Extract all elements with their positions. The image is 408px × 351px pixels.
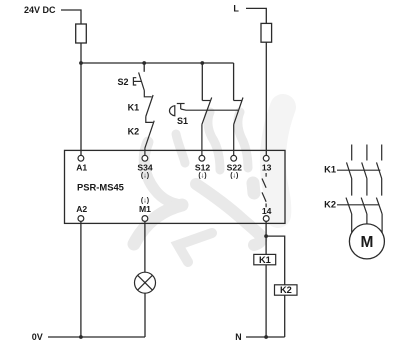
node A2/0V junction [79,335,83,339]
svg-text:14: 14 [262,206,272,216]
terminal A1 [78,155,84,161]
node bus/S12 junction [200,61,204,65]
wire L feed [246,8,266,23]
wire drop to S12 contact [201,63,203,101]
terminal S34 [142,155,148,161]
wire top bus [81,62,234,64]
svg-text:M1: M1 [139,204,151,214]
svg-text:(↓): (↓) [198,173,206,180]
svg-text:PSR-MS45: PSR-MS45 [77,181,124,192]
node K1/N junction [264,335,268,339]
lamp H1 [135,272,156,293]
svg-text:S22: S22 [227,162,243,172]
node branch split [264,234,268,238]
svg-text:K1: K1 [128,102,140,112]
svg-text:K2: K2 [280,285,292,295]
fuse F2 (L) [261,23,272,42]
terminal 14 [263,216,269,222]
wire lamp to 0V [144,293,146,337]
coil K1 [254,254,276,264]
svg-text:(↓): (↓) [141,173,149,180]
node bus/S2 junction [142,61,146,65]
svg-text:24V DC: 24V DC [24,5,56,15]
terminal M1 [142,216,148,222]
wire 14 to branch node [265,221,267,236]
contact K1 (NC aux) [144,91,153,117]
wire branch to K2 [266,236,285,285]
motor M [349,224,384,259]
wire fuse to terminal 13 [265,42,267,155]
svg-text:K1: K1 [259,255,271,265]
internal output contact 13-14 [262,173,266,207]
svg-text:S1: S1 [177,116,188,126]
fuse F1 (24V) [76,24,87,43]
wire bus to A1 [80,63,82,155]
contactor contacts K2 (3-pole NO) [337,198,382,235]
svg-text:K1: K1 [324,165,336,175]
wire M1 to lamp [144,221,146,272]
relay U1 PSR-MS45 box [65,150,286,223]
wire K2 coil to N [284,295,286,337]
contact K2 (NC aux) [145,117,154,156]
svg-text:0V: 0V [32,332,43,342]
wire 0V rail [48,336,145,338]
svg-text:S34: S34 [137,162,153,172]
svg-text:13: 13 [262,162,272,172]
svg-text:K2: K2 [324,200,336,210]
watermark [134,107,283,262]
svg-text:S2: S2 [117,77,128,87]
wire A2 to 0V [80,221,82,337]
pushbutton S2 (NO reset) [133,72,144,90]
contact S1.1 (NC to S12) [202,98,212,156]
coil K2 [275,285,298,295]
svg-text:N: N [235,332,241,342]
node bus/A1 junction [79,61,83,65]
svg-text:A1: A1 [76,162,87,172]
contactor contacts K1 (3-pole NO) [337,145,382,196]
wire 24V DC feed [61,10,81,24]
terminal 13 [263,155,269,161]
terminal S12 [199,155,205,161]
wire K1 coil to N [265,265,267,337]
terminal S22 [231,155,237,161]
svg-text:(↓): (↓) [141,197,149,204]
wire fuse to bus [80,43,82,63]
terminal A2 [78,216,84,222]
wire node to K1 coil [265,236,267,254]
wire bus to S2 [143,63,145,72]
wire N rail [246,336,285,338]
e-stop S1 actuator [169,104,238,116]
svg-text:M: M [360,234,373,251]
svg-text:(↓): (↓) [230,173,238,180]
svg-text:S12: S12 [195,162,211,172]
svg-text:K2: K2 [128,127,140,137]
svg-text:A2: A2 [76,204,87,214]
contact S1.2 (NC to S22) [234,98,243,156]
svg-text:L: L [233,4,239,14]
wire drop to S22 contact [233,63,235,101]
